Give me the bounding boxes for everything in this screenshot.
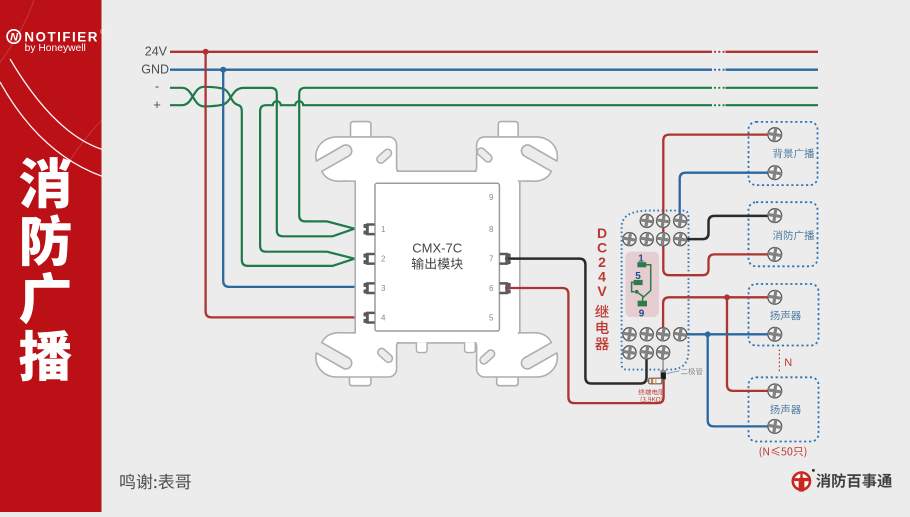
box background broadcast: [749, 122, 818, 185]
bottom-right logo: [793, 469, 815, 492]
label diode: [667, 371, 680, 374]
wire plus bus (twisted pair, incoming to terminal 2): [170, 87, 355, 266]
wire relay row2 col4 to fire broadcast (black): [680, 216, 771, 239]
svg-text:NOTIFIER: NOTIFIER: [24, 29, 99, 44]
wire GND bus: [170, 69, 818, 71]
svg-text:9: 9: [639, 308, 645, 319]
svg-text:7: 7: [489, 255, 494, 264]
svg-text:24V: 24V: [145, 45, 168, 59]
svg-text:2: 2: [381, 255, 386, 264]
relay DC24V box: [622, 211, 689, 370]
wire speaker return drop (blue): [708, 334, 771, 426]
box speaker 1: [749, 284, 819, 346]
svg-text:N: N: [784, 357, 792, 369]
module CMX-7C body: [375, 183, 499, 331]
relay contact symbol (pink): [626, 252, 659, 317]
screw terminals on module: [364, 223, 375, 235]
box speaker N: [749, 377, 819, 441]
sidebar: [0, 0, 102, 512]
wire relay row3 col4 to speakers (blue): [680, 333, 771, 335]
wire GND drop to module terminal 3: [223, 70, 365, 287]
svg-text:6: 6: [489, 284, 494, 293]
wire minus bus (twisted pair, incoming to terminal 1): [170, 88, 355, 237]
sidebar title: [20, 157, 71, 208]
svg-text:-: -: [155, 79, 159, 94]
relay contact wiring: [632, 265, 651, 301]
credit text: [120, 474, 191, 490]
svg-text:9: 9: [489, 193, 494, 202]
label N<=50: [760, 447, 807, 458]
svg-text:®: ®: [100, 28, 105, 36]
svg-text:+: +: [153, 97, 161, 112]
wire speaker feed drop (red): [727, 297, 771, 391]
wire relay row3 col3 to speakers (red): [663, 297, 771, 334]
label terminal resistor: [639, 389, 665, 395]
wire 24V bus: [170, 51, 818, 53]
NOTIFIER logo: [7, 30, 20, 43]
junction speaker blue: [705, 331, 711, 337]
svg-text:1: 1: [381, 225, 386, 234]
wire module pin 6 to diode (red): [505, 288, 664, 403]
junction 24V bus: [203, 49, 209, 55]
wire background broadcast pin2 to relay row1 col4 (blue): [680, 173, 771, 219]
svg-text:8: 8: [489, 225, 494, 234]
svg-text:5: 5: [489, 314, 494, 323]
svg-text:3: 3: [381, 284, 386, 293]
wire module pin 7 to relay row4 (black): [505, 259, 647, 384]
resistor R1 terminal 3.9K: [647, 380, 664, 382]
svg-text:V: V: [597, 283, 607, 299]
svg-text:GND: GND: [141, 63, 169, 77]
junction GND bus: [220, 67, 226, 73]
wire background broadcast through relay col3 to fire broadcast (red): [663, 135, 771, 276]
svg-text:by Honeywell: by Honeywell: [25, 43, 86, 54]
junction speaker red: [724, 294, 730, 300]
relay terminal screws: [639, 213, 655, 229]
svg-text:4: 4: [381, 314, 386, 323]
svg-text:N: N: [10, 32, 19, 44]
sidebar arcs: [10, 59, 104, 150]
diode D1: [662, 352, 664, 370]
broadcast/speaker box screws: [767, 126, 783, 142]
wire minus bus (outgoing from terminal 1 to right): [299, 88, 818, 229]
module CMX-7C mounting plate: [355, 171, 520, 343]
wire 24V drop to module terminal 4: [206, 52, 365, 318]
svg-text:CMX-7C: CMX-7C: [412, 241, 462, 256]
node N (repeat): [778, 350, 780, 372]
box fire broadcast: [749, 202, 818, 266]
wire plus bus (outgoing from terminal 2 to right, hops over minus risers): [260, 101, 818, 259]
